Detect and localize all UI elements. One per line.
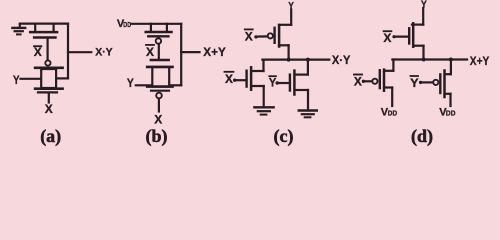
- wire N3 drain stub: [307, 60, 309, 75]
- svg-text:Y: Y: [13, 73, 20, 87]
- svg-text:X: X: [34, 45, 42, 59]
- wire N4 gate with dot: [392, 35, 408, 38]
- TG top gate bar: [35, 67, 63, 70]
- bubble P4 gate: [433, 80, 438, 85]
- transistor P1 drain leg: [166, 24, 168, 31]
- svg-text:Y: Y: [269, 76, 276, 90]
- transistor P4 channel: [443, 71, 446, 98]
- wire bottom gate stem: [48, 93, 50, 102]
- wire top rail: [131, 23, 181, 25]
- wire output vertical: [180, 24, 182, 86]
- junction dot: [287, 58, 291, 62]
- svg-text:Y: Y: [410, 76, 419, 90]
- transistor N4 source lead: [414, 45, 424, 47]
- transistor P1 source leg: [150, 24, 152, 31]
- junction dot: [449, 58, 453, 62]
- transistor P2 drain lead: [279, 44, 289, 46]
- VDD label right: [439, 106, 455, 118]
- svg-text:X·Y: X·Y: [332, 53, 351, 67]
- node X-bar label: [245, 29, 253, 43]
- wire gate with dot: [254, 35, 267, 38]
- TG bottom gate bar: [38, 91, 57, 93]
- wire TG output: [57, 77, 68, 79]
- svg-text:X: X: [45, 102, 53, 116]
- transmission gate box: [41, 69, 56, 88]
- transistor P4 drain lead: [446, 73, 451, 75]
- wire N2 gate with dot: [233, 79, 246, 82]
- wire Y stem: [422, 8, 424, 25]
- TG bottom wide bar: [147, 85, 172, 88]
- svg-text:Y: Y: [127, 76, 134, 90]
- wire N2 drain stub: [262, 60, 264, 71]
- svg-text:X+Y: X+Y: [470, 54, 490, 68]
- transistor N4 gate bar: [408, 28, 410, 43]
- transistor N4 drain lead: [412, 24, 423, 26]
- wire output rail: [392, 58, 467, 60]
- transistor N3 channel: [293, 71, 296, 95]
- svg-text:(b): (b): [146, 126, 168, 147]
- bubble TG bottom gate: [156, 93, 162, 99]
- svg-text:(d): (d): [411, 126, 433, 147]
- ground right: [299, 111, 317, 118]
- wire output vertical: [67, 24, 69, 79]
- wire Y input: [21, 78, 41, 80]
- wire top rail: [20, 23, 68, 25]
- transistor P1 gate bar: [148, 35, 168, 37]
- ground: [12, 24, 25, 34]
- TG bottom wide bar: [35, 87, 63, 90]
- transistor N2 drain lead: [252, 70, 264, 72]
- transistor N3 gate bar: [289, 75, 291, 91]
- TG top gate bar: [151, 59, 169, 61]
- svg-text:DD: DD: [388, 108, 397, 117]
- wire N3 source stub: [307, 90, 309, 111]
- svg-text:(c): (c): [274, 126, 294, 147]
- wire P4 gate with dot: [419, 81, 433, 84]
- wire output rail: [262, 58, 329, 60]
- svg-text:X: X: [154, 113, 162, 127]
- wire output tap: [181, 51, 199, 53]
- transistor N1 drain leg: [52, 24, 54, 32]
- transistor N4 channel: [412, 23, 415, 46]
- TG bottom gate bar: [151, 90, 169, 92]
- transistor N1 channel: [30, 31, 57, 34]
- transistor P2 channel: [278, 25, 281, 47]
- svg-text:DD: DD: [446, 109, 456, 118]
- wire bottom stem: [158, 99, 160, 112]
- node Y-bar label: [410, 76, 419, 90]
- svg-text:X: X: [383, 31, 391, 45]
- svg-text:X+Y: X+Y: [203, 45, 226, 59]
- junction dot: [422, 58, 426, 62]
- svg-text:(a): (a): [40, 126, 61, 147]
- transistor P3 channel: [383, 70, 386, 91]
- transistor P3 gate bar: [379, 70, 381, 88]
- wire N3 gate with dot: [276, 81, 289, 84]
- wire output tap: [68, 51, 91, 53]
- node X-bar label: [225, 72, 234, 86]
- transistor N3 source lead: [295, 89, 308, 91]
- svg-text:X: X: [245, 30, 253, 44]
- wire P4 source stem: [449, 94, 451, 106]
- bubble P1 gate: [156, 38, 161, 43]
- wire P4 drain stub: [450, 60, 452, 75]
- wire gate stem: [46, 39, 48, 60]
- wire gate stem: [158, 44, 160, 59]
- wire N4 source stub: [422, 46, 424, 60]
- wire P3 source stem: [391, 88, 393, 107]
- transistor P1 channel: [146, 31, 172, 34]
- wire Y input: [136, 84, 152, 86]
- transistor P3 drain lead: [385, 70, 393, 72]
- node X-bar label: [383, 31, 391, 45]
- transmission gate box: [152, 67, 169, 87]
- VDD label left: [381, 106, 397, 118]
- transistor P2 gate bar: [273, 28, 275, 43]
- node X-bar label: [354, 74, 362, 88]
- bubble on TG top gate: [45, 60, 50, 65]
- transistor P4 gate bar: [439, 74, 441, 93]
- svg-text:X·Y: X·Y: [95, 46, 113, 58]
- transistor P3 source lead: [385, 86, 392, 88]
- wire P2 drain stub: [288, 45, 290, 59]
- wire N2 source stub: [263, 86, 265, 107]
- transistor N3 drain lead: [295, 73, 308, 75]
- bubble P2 gate: [268, 33, 273, 38]
- transistor P4 source lead: [446, 93, 451, 95]
- transistor N2 source lead: [252, 85, 264, 87]
- transistor N2 channel: [250, 67, 253, 89]
- transistor P2 source lead: [279, 24, 291, 26]
- ground left: [254, 107, 273, 114]
- svg-text:X: X: [146, 45, 154, 59]
- wire P3 gate with dot: [362, 80, 372, 83]
- svg-text:X: X: [225, 72, 233, 86]
- wire P3 drain stub: [392, 60, 394, 71]
- junction dot: [306, 58, 310, 62]
- transistor N2 gate bar: [245, 71, 247, 87]
- node X-bar label: [34, 45, 42, 59]
- transistor N1 gate bar: [34, 36, 55, 38]
- svg-text:X: X: [354, 74, 362, 88]
- TG top wide bar: [147, 66, 172, 69]
- node X-bar label: [146, 45, 154, 59]
- bubble P3 gate: [372, 79, 377, 84]
- wire TG output: [170, 84, 182, 86]
- transistor N1 source leg: [34, 24, 36, 32]
- node Y-bar label: [269, 76, 276, 90]
- wire Y stem: [290, 10, 292, 25]
- VDD label: [117, 18, 132, 30]
